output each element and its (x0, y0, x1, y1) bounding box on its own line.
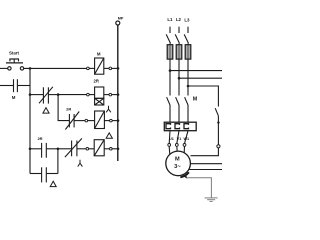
wire rung4 to star-NC contact (58, 148, 71, 150)
node tap L2 (178, 77, 181, 80)
node rail rung3 (117, 93, 120, 96)
terminal o W1 (183, 144, 186, 147)
label delta (triangle) (43, 108, 49, 114)
fuse F1 (167, 45, 173, 59)
node tap L1 (169, 69, 172, 72)
svg-text:2R: 2R (66, 106, 71, 111)
wire (104, 120, 109, 122)
ground symbol (205, 197, 218, 199)
terminal o U1 (168, 144, 171, 147)
wire to rail (112, 94, 118, 96)
terminal o left of star coil (85, 119, 88, 122)
terminal o right of star coil (110, 119, 113, 122)
wire phase drops through fuses (169, 43, 171, 95)
wire to rail (112, 120, 118, 122)
pushbutton S1 (Start, NO) (6, 59, 24, 70)
terminal o V1 (175, 144, 178, 147)
svg-text:M: M (193, 97, 198, 103)
timer relay coil 2R (95, 87, 104, 105)
wire vertical left branch (29, 68, 31, 173)
wire tap L2 to right edge (179, 77, 222, 79)
svg-text:2R: 2R (94, 79, 99, 84)
contact M holding (NO) (14, 79, 18, 92)
wire motor output line 2 (190, 163, 222, 165)
terminal MP (116, 21, 120, 25)
node rung3 (29, 93, 32, 96)
node tap L3 (187, 85, 190, 88)
wire branch down to star rung (58, 95, 69, 121)
wire (104, 94, 109, 96)
label delta (triangle above coil) (106, 133, 112, 138)
ground wire (187, 178, 217, 202)
wire (88, 120, 95, 122)
node branch to star rung (57, 93, 60, 96)
wire feeders to motor terminals (168, 131, 171, 144)
coil 2M delta contactor (94, 140, 104, 156)
wire motor output line 3 (189, 169, 222, 171)
svg-text:V1: V1 (177, 137, 182, 141)
wire rung3 to timer terminal (58, 94, 87, 96)
wire (104, 67, 109, 69)
contact 2R NO (parallel top) (42, 143, 47, 158)
wire tap L1 to right edge (170, 70, 222, 72)
wire Start to coil M terminal (24, 67, 87, 69)
thick arc ground attachment on motor (180, 172, 189, 177)
wire (74, 120, 85, 122)
wire (89, 94, 94, 96)
wire rung4 top-left (30, 148, 41, 150)
node junction rung1 / holding branch (29, 67, 32, 70)
arrow tail on motor edge (183, 175, 187, 178)
contactor M main contacts (167, 97, 188, 122)
node on 1R branch (217, 121, 219, 123)
disconnect switch blades (166, 34, 170, 43)
svg-text:2R: 2R (37, 136, 42, 141)
wire (104, 148, 109, 150)
node rung4 right (57, 148, 60, 151)
terminal o right of timer (109, 93, 112, 96)
terminal o left of timer (87, 93, 90, 96)
wire (89, 67, 94, 69)
wire 1R branch to motor line (191, 148, 219, 156)
fuse F3 (185, 45, 191, 59)
terminal o right of delta coil (110, 148, 113, 151)
wire rung3 mid (49, 94, 59, 96)
svg-text:MP: MP (118, 17, 124, 21)
node rung4 left (29, 148, 32, 151)
wire phase stubs L1 L2 L3 (169, 27, 171, 33)
svg-text:M: M (97, 51, 101, 56)
svg-text:Start: Start (9, 51, 20, 56)
wire to rail (112, 67, 118, 69)
contact 1R star interlock (NC crossed) (65, 138, 82, 157)
label delta (triangle below) (50, 181, 56, 186)
wire rung2 from left edge (0, 85, 13, 87)
node rail rung1 (117, 67, 120, 70)
svg-text:W1: W1 (183, 137, 189, 141)
wire (89, 148, 95, 150)
svg-text:L3: L3 (184, 18, 190, 23)
contact delta interlock (NC crossed) (39, 87, 53, 104)
contact 1R branch (NO) (215, 108, 218, 144)
node rail star rung (117, 119, 120, 122)
svg-text:3~: 3~ (174, 164, 181, 170)
svg-text:M: M (175, 156, 180, 162)
fuse F2 (176, 45, 182, 59)
wire rung2 to branch (18, 85, 30, 87)
svg-text:L2: L2 (176, 17, 182, 22)
svg-text:L1: L1 (167, 17, 173, 22)
contact 2R (NC crossed) (65, 112, 79, 130)
overload relay OL (164, 122, 196, 131)
contact delta NO (parallel bottom) (42, 167, 47, 182)
label star (Y symbol) (106, 106, 111, 113)
wire parallel branch verticals and bottom (57, 149, 59, 174)
coil 1R (star contactor) (95, 111, 105, 129)
wire (77, 148, 86, 150)
wire rung4 top-right (47, 148, 58, 150)
label star (Y symbol below) (78, 160, 83, 167)
motor M1 (3~) (166, 151, 191, 176)
svg-text:U1: U1 (169, 137, 174, 141)
wire from left edge to Start (0, 67, 8, 69)
wire tap L3 to 1R branch (188, 86, 218, 107)
terminal o left of delta coil (86, 148, 89, 151)
coil M (contactor coil) (95, 58, 104, 74)
wire MP rail (117, 25, 119, 161)
terminal o right of coil M (109, 67, 112, 70)
wire to rail (112, 148, 118, 150)
wire rung3 left (30, 94, 43, 96)
svg-text:M: M (12, 95, 16, 100)
terminal o left of coil M (87, 67, 90, 70)
wire stubs into motor (168, 146, 171, 155)
terminal o on 1R branch (217, 145, 220, 148)
node rail rung4 (117, 148, 120, 151)
